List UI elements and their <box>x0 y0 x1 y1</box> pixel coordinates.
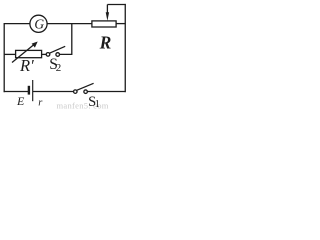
rheostat R' body <box>16 50 42 57</box>
switch S1 lever <box>77 83 94 90</box>
switch S2 lever <box>50 46 66 53</box>
svg-text:R: R <box>99 32 112 52</box>
svg-text:2: 2 <box>56 62 62 74</box>
switch S2 right contact <box>56 53 60 57</box>
svg-text:manfen5. com: manfen5. com <box>57 101 109 110</box>
rheostat R' diagonal arrow shaft <box>12 44 35 62</box>
wire: rheostat R' right lead to switch S2 <box>42 53 47 55</box>
wire: wiper stem <box>106 5 108 14</box>
wire: bottom horizontal from bottom-left corner to battery <box>4 91 28 93</box>
wire: right vertical side <box>124 4 126 92</box>
wire: wiper top bar <box>107 4 125 6</box>
galvanometer G circle <box>30 15 47 32</box>
switch S1 left contact <box>74 90 78 94</box>
svg-text:E: E <box>16 94 25 108</box>
rheostat R' arrowhead <box>32 42 38 48</box>
battery short thick plate <box>28 86 30 95</box>
wire: switch S1 to bottom-right corner <box>87 91 125 93</box>
svg-text:G: G <box>34 16 44 31</box>
switch S1 right contact <box>84 90 88 94</box>
wire: left vertical side <box>3 23 5 92</box>
wire: resistor R right lead <box>116 23 126 25</box>
wire: top horizontal from galvanometer to resistor R <box>47 23 92 25</box>
wiper arrowhead pointing down at resistor R <box>106 12 109 21</box>
svg-text:r: r <box>38 98 43 109</box>
wire: middle branch lead from left vertical to rheostat R' <box>4 53 15 55</box>
resistor R body (top right) <box>92 21 116 27</box>
battery long thin plate <box>32 80 34 101</box>
wire: top-left horizontal from corner to galvanometer <box>4 23 30 25</box>
svg-text:R′: R′ <box>19 56 34 75</box>
wire: junction vertical from top wire down to S2 branch <box>59 24 72 55</box>
svg-text:1: 1 <box>95 99 100 110</box>
switch S2 left contact <box>46 53 50 57</box>
wire: battery to switch S1 <box>33 91 74 93</box>
